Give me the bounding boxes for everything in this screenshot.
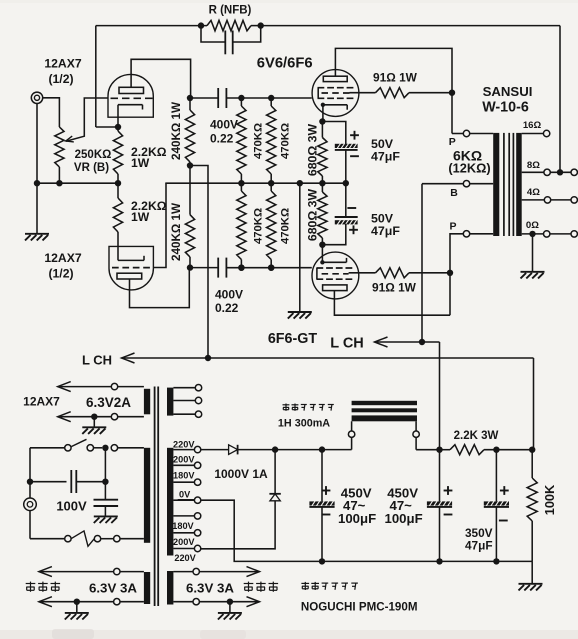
svg-text:L CH: L CH xyxy=(82,353,112,368)
svg-text:91Ω 1W: 91Ω 1W xyxy=(373,71,418,85)
svg-text:0V: 0V xyxy=(179,489,191,499)
svg-text:240KΩ 1W: 240KΩ 1W xyxy=(170,101,183,160)
svg-text:470KΩ: 470KΩ xyxy=(280,123,292,159)
svg-text:P: P xyxy=(449,136,456,148)
svg-text:0Ω: 0Ω xyxy=(526,220,539,231)
svg-text:1W: 1W xyxy=(131,210,150,224)
svg-text:400V: 400V xyxy=(215,288,243,302)
svg-text:470KΩ: 470KΩ xyxy=(280,208,292,244)
svg-text:B: B xyxy=(450,187,458,199)
svg-text:1H 300mA: 1H 300mA xyxy=(278,418,330,430)
svg-text:400V: 400V xyxy=(210,118,238,132)
svg-text:180V: 180V xyxy=(173,471,195,481)
svg-text:0.22: 0.22 xyxy=(210,132,234,146)
svg-text:470KΩ: 470KΩ xyxy=(252,208,264,244)
svg-text:SANSUI: SANSUI xyxy=(483,84,533,99)
svg-text:1W: 1W xyxy=(131,156,150,170)
svg-text:100μF: 100μF xyxy=(338,511,376,526)
svg-text:4Ω: 4Ω xyxy=(527,187,540,198)
svg-text:P: P xyxy=(449,221,456,233)
svg-text:8Ω: 8Ω xyxy=(527,160,540,171)
svg-text:100V: 100V xyxy=(56,499,87,514)
svg-text:L CH: L CH xyxy=(330,336,364,352)
svg-text:200V: 200V xyxy=(173,537,195,547)
svg-text:12AX7: 12AX7 xyxy=(23,395,60,409)
svg-text:6.3V2A: 6.3V2A xyxy=(86,395,131,410)
svg-text:220V: 220V xyxy=(173,440,195,450)
svg-text:W-10-6: W-10-6 xyxy=(482,100,529,116)
svg-text:47μF: 47μF xyxy=(465,539,493,553)
svg-text:680Ω 3W: 680Ω 3W xyxy=(305,123,319,176)
svg-text:VR (B): VR (B) xyxy=(74,162,109,174)
svg-text:6V6/6F6: 6V6/6F6 xyxy=(257,56,313,72)
svg-text:6.3V 3A: 6.3V 3A xyxy=(89,581,137,596)
svg-text:(1/2): (1/2) xyxy=(48,72,73,86)
svg-text:16Ω: 16Ω xyxy=(523,120,542,131)
svg-text:2.2K 3W: 2.2K 3W xyxy=(454,430,499,442)
svg-text:200V: 200V xyxy=(173,455,195,465)
svg-text:680Ω 3W: 680Ω 3W xyxy=(305,188,319,241)
svg-text:91Ω 1W: 91Ω 1W xyxy=(372,281,417,295)
svg-text:250KΩ: 250KΩ xyxy=(75,149,112,161)
svg-text:NOGUCHI PMC-190M: NOGUCHI PMC-190M xyxy=(301,601,418,614)
svg-text:6F6-GT: 6F6-GT xyxy=(268,331,318,347)
svg-text:(1/2): (1/2) xyxy=(48,267,73,281)
svg-text:470KΩ: 470KΩ xyxy=(252,123,264,159)
svg-text:47μF: 47μF xyxy=(371,224,400,238)
svg-text:240KΩ 1W: 240KΩ 1W xyxy=(170,202,183,261)
svg-text:220V: 220V xyxy=(174,553,196,563)
svg-text:47μF: 47μF xyxy=(371,150,400,164)
svg-text:6.3V 3A: 6.3V 3A xyxy=(186,581,234,596)
svg-text:100K: 100K xyxy=(542,484,557,515)
svg-text:180V: 180V xyxy=(172,521,194,531)
svg-text:12AX7: 12AX7 xyxy=(44,251,81,265)
svg-text:1000V 1A: 1000V 1A xyxy=(214,467,268,481)
svg-text:12AX7: 12AX7 xyxy=(44,57,81,71)
svg-text:0.22: 0.22 xyxy=(215,301,239,315)
svg-text:100μF: 100μF xyxy=(385,511,423,526)
svg-text:R (NFB): R (NFB) xyxy=(209,5,252,17)
svg-text:(12KΩ): (12KΩ) xyxy=(448,161,490,176)
